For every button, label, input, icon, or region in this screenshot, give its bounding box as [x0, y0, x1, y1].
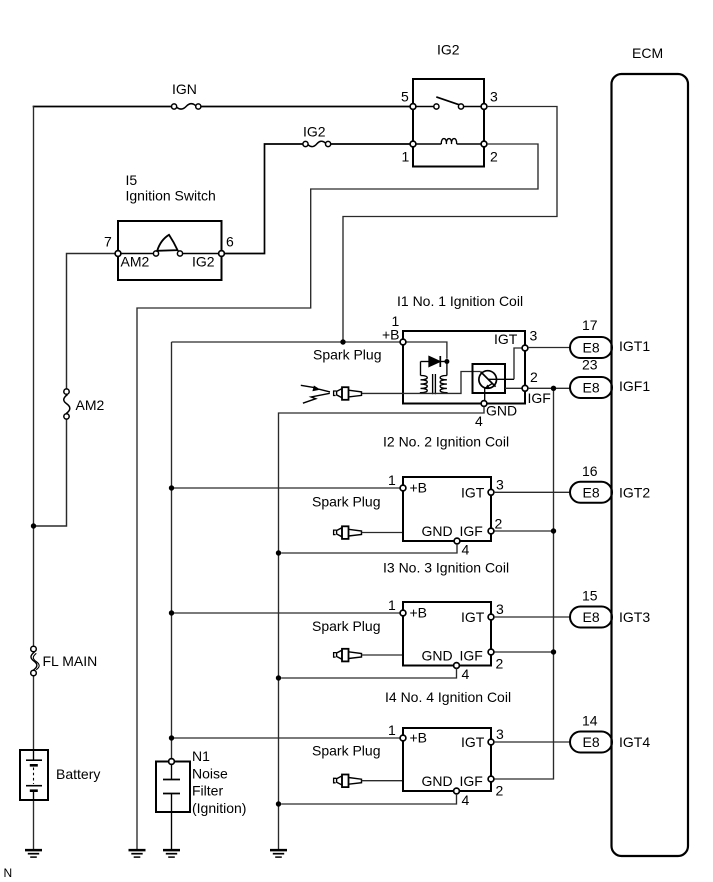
connector E8 IGT2 — [570, 482, 612, 503]
svg-text:+B: +B — [410, 605, 428, 621]
svg-text:23: 23 — [582, 357, 598, 373]
relay pin 2 terminal — [481, 141, 487, 147]
svg-text:4: 4 — [462, 542, 470, 558]
wire coil2 GND to bus — [281, 544, 457, 553]
ignition coil I4 box — [403, 728, 491, 791]
svg-text:14: 14 — [582, 713, 598, 729]
svg-text:AM2: AM2 — [76, 397, 105, 413]
junction dot (AM2 branch on battery bus) — [31, 523, 36, 528]
junction dot (GND coil2) — [276, 550, 281, 555]
coil3 pin 4 terminal — [454, 663, 460, 669]
svg-text:6: 6 — [226, 234, 234, 250]
svg-text:I2 No. 2 Ignition Coil: I2 No. 2 Ignition Coil — [383, 434, 509, 450]
wire spark plug 4 to coil — [362, 780, 403, 782]
svg-text:E8: E8 — [583, 609, 600, 625]
junction dot (IGF bus top) — [551, 386, 556, 391]
svg-text:7: 7 — [104, 234, 112, 250]
wire AM2 branch (ignition switch pin7 to battery bus) — [36, 254, 115, 527]
wire igniter to IGT pin3 — [514, 348, 522, 379]
igniter box (coil1) — [473, 364, 506, 393]
relay IG2 box — [413, 79, 484, 167]
coil2 pin 1 terminal — [400, 485, 406, 491]
svg-text:Battery: Battery — [56, 766, 100, 782]
svg-text:IGT4: IGT4 — [619, 734, 650, 750]
wire IGT1 (coil1 pin3 to E8) — [528, 347, 570, 349]
svg-text:I4 No. 4 Ignition Coil: I4 No. 4 Ignition Coil — [385, 689, 511, 705]
svg-text:Noise: Noise — [192, 765, 228, 781]
wire switch pin6 to IG2 fuse to relay pin 1 — [225, 144, 411, 254]
relay pin 3 terminal — [481, 104, 487, 110]
svg-text:1: 1 — [388, 597, 396, 613]
coil3 pin 3 terminal — [488, 614, 494, 620]
ignition coil I1 box — [403, 331, 525, 404]
wire IGT4 (coil4 pin3 to E8) — [494, 741, 570, 743]
battery — [20, 750, 48, 800]
coil1 internal +B wire — [406, 342, 447, 359]
ECM box — [612, 74, 689, 856]
fuse AM2 — [64, 389, 70, 419]
svg-text:I5: I5 — [126, 172, 138, 188]
ground (relay coil) — [129, 850, 146, 857]
svg-text:4: 4 — [462, 792, 470, 808]
wire IGT2 (coil2 pin3 to E8) — [494, 491, 570, 493]
svg-text:Ignition Switch: Ignition Switch — [126, 188, 216, 204]
svg-text:IGF: IGF — [460, 773, 483, 789]
relay pin 5 terminal — [410, 104, 416, 110]
ground (coil GND bus) — [270, 850, 287, 857]
junction dot (GND coil3) — [276, 675, 281, 680]
coil3 pin 2 terminal — [488, 649, 494, 655]
svg-text:IGT1: IGT1 — [619, 338, 650, 354]
wire spark plug 3 to coil — [362, 654, 403, 656]
coil1 pin 3 terminal — [522, 345, 528, 351]
connector E8 IGF1 — [570, 377, 612, 398]
coil1 pin 2 terminal — [522, 385, 528, 391]
svg-text:GND: GND — [422, 523, 453, 539]
svg-text:N: N — [4, 866, 13, 880]
svg-text:1: 1 — [388, 472, 396, 488]
svg-text:I1 No. 1 Ignition Coil: I1 No. 1 Ignition Coil — [397, 293, 523, 309]
svg-text:IGT: IGT — [461, 609, 485, 625]
svg-text:Spark Plug: Spark Plug — [312, 494, 380, 510]
svg-text:IGF: IGF — [528, 390, 551, 406]
coil3 pin 1 terminal — [400, 610, 406, 616]
svg-text:1: 1 — [402, 149, 410, 165]
coil2 pin 3 terminal — [488, 489, 494, 495]
svg-text:4: 4 — [462, 666, 470, 682]
svg-text:IGN: IGN — [172, 81, 197, 97]
diode (coil1) — [421, 356, 447, 367]
spark arrow (lightning at plug 1) — [301, 385, 330, 403]
svg-text:1: 1 — [388, 722, 396, 738]
svg-text:IGT: IGT — [494, 331, 518, 347]
transistor (coil1 igniter) — [479, 371, 514, 401]
switch pin 7 terminal — [115, 251, 121, 257]
svg-text:IG2: IG2 — [192, 254, 215, 270]
wire igniter to IGF pin2 — [505, 387, 522, 389]
svg-text:IG2: IG2 — [303, 124, 326, 140]
junction dot (+B at coil3) — [169, 610, 174, 615]
ground (battery) — [25, 850, 42, 857]
junction dot (IGF coil3) — [551, 649, 556, 654]
svg-text:Spark Plug: Spark Plug — [312, 618, 380, 634]
svg-text:3: 3 — [496, 477, 504, 493]
junction dot (+B at coil2) — [169, 485, 174, 490]
svg-text:3: 3 — [490, 89, 498, 105]
transformer (coil1 windings and core) — [421, 362, 447, 395]
connector E8 IGT4 — [570, 732, 612, 753]
svg-text:I3 No. 3 Ignition Coil: I3 No. 3 Ignition Coil — [383, 560, 509, 576]
svg-text:E8: E8 — [583, 340, 600, 356]
svg-text:IG2: IG2 — [437, 42, 460, 58]
ground (noise filter) — [163, 850, 180, 857]
wire +B rail (to coils 1-4 and noise filter) — [172, 342, 401, 759]
spark plug (coil1) — [334, 387, 362, 400]
fuse IGN — [172, 104, 201, 109]
wire relay pin3 +B loop to coils — [343, 107, 557, 343]
coil2 pin 4 terminal — [454, 538, 460, 544]
junction dot (GND coil4) — [276, 801, 281, 806]
wire secondary to spark plug and to igniter — [362, 372, 481, 394]
coil2 pin 2 terminal — [488, 528, 494, 534]
svg-text:N1: N1 — [192, 748, 210, 764]
wire spark plug 2 to coil — [362, 532, 403, 534]
svg-text:ECM: ECM — [632, 45, 663, 61]
svg-text:IGF: IGF — [460, 523, 483, 539]
connector E8 IGT1 — [570, 337, 612, 358]
junction dot (IGF coil2) — [551, 528, 556, 533]
relay internal coil — [416, 139, 481, 144]
svg-text:E8: E8 — [583, 380, 600, 396]
svg-text:+B: +B — [410, 480, 428, 496]
svg-text:+B: +B — [410, 730, 428, 746]
svg-text:15: 15 — [582, 588, 598, 604]
wire coil3 GND to bus — [281, 668, 456, 678]
relay pin 1 terminal — [410, 141, 416, 147]
ignition switch I5 box — [118, 221, 222, 280]
svg-text:2: 2 — [530, 369, 538, 385]
svg-text:Spark Plug: Spark Plug — [312, 743, 380, 759]
coil1 pin 4 terminal — [481, 401, 487, 407]
wire IGN feed (battery bus to relay pin 5) — [33, 106, 411, 108]
coil4 pin 4 terminal — [454, 788, 460, 794]
svg-text:FL MAIN: FL MAIN — [43, 653, 98, 669]
wire left battery bus — [33, 106, 35, 850]
svg-text:IGF1: IGF1 — [619, 378, 650, 394]
svg-text:GND: GND — [486, 403, 517, 419]
ignition switch internal contacts and lever — [121, 235, 219, 256]
svg-text:IGT: IGT — [461, 734, 485, 750]
ignition coil I3 box — [403, 602, 491, 666]
coil4 pin 1 terminal — [400, 735, 406, 741]
svg-text:AM2: AM2 — [121, 254, 150, 270]
svg-text:IGT2: IGT2 — [619, 485, 650, 501]
svg-text:E8: E8 — [583, 484, 600, 500]
noise filter terminal — [169, 759, 175, 765]
spark plug (coil2) — [334, 526, 362, 539]
wire relay pin2 to ground loop — [137, 144, 538, 850]
svg-text:3: 3 — [530, 328, 538, 344]
fusible link FL MAIN — [31, 646, 39, 676]
coil4 pin 2 terminal — [488, 776, 494, 782]
wire coil1 GND to ground bus — [279, 407, 485, 850]
svg-text:IGT: IGT — [461, 485, 485, 501]
junction dot (diode cathode) — [444, 359, 449, 364]
spark plug (coil3) — [334, 649, 362, 662]
wire coil4 GND to bus — [281, 794, 456, 804]
svg-text:E8: E8 — [583, 734, 600, 750]
svg-text:5: 5 — [401, 89, 409, 105]
svg-text:17: 17 — [582, 317, 598, 333]
junction dot (+B at coil4) — [169, 735, 174, 740]
fuse IG2 — [303, 141, 331, 146]
svg-text:(Ignition): (Ignition) — [192, 800, 246, 816]
svg-text:4: 4 — [475, 413, 483, 429]
connector E8 IGT3 — [570, 607, 612, 628]
switch pin 6 terminal — [219, 251, 225, 257]
wire IGT3 (coil3 pin3 to E8) — [494, 616, 570, 618]
svg-text:GND: GND — [422, 773, 453, 789]
svg-text:16: 16 — [582, 463, 598, 479]
svg-text:2: 2 — [495, 516, 503, 532]
ignition coil I2 box — [403, 477, 491, 541]
svg-text:+B: +B — [382, 327, 400, 343]
svg-text:IGT3: IGT3 — [619, 609, 650, 625]
svg-text:GND: GND — [422, 648, 453, 664]
spark plug (coil4) — [334, 775, 362, 788]
wire IGF1 (coil1 pin2 to E8) and IGF bus — [494, 388, 570, 779]
relay internal switch contact — [416, 97, 481, 109]
svg-text:2: 2 — [490, 149, 498, 165]
coil1 pin 1 terminal — [400, 339, 406, 345]
svg-text:3: 3 — [496, 601, 504, 617]
svg-text:IGF: IGF — [460, 648, 483, 664]
svg-text:3: 3 — [496, 726, 504, 742]
coil4 pin 3 terminal — [488, 739, 494, 745]
svg-text:2: 2 — [496, 783, 504, 799]
noise filter N1 box — [156, 762, 190, 850]
svg-text:Spark Plug: Spark Plug — [313, 347, 381, 363]
junction dot (+B at coil1) — [340, 339, 345, 344]
svg-text:Filter: Filter — [192, 783, 223, 799]
svg-text:2: 2 — [496, 656, 504, 672]
